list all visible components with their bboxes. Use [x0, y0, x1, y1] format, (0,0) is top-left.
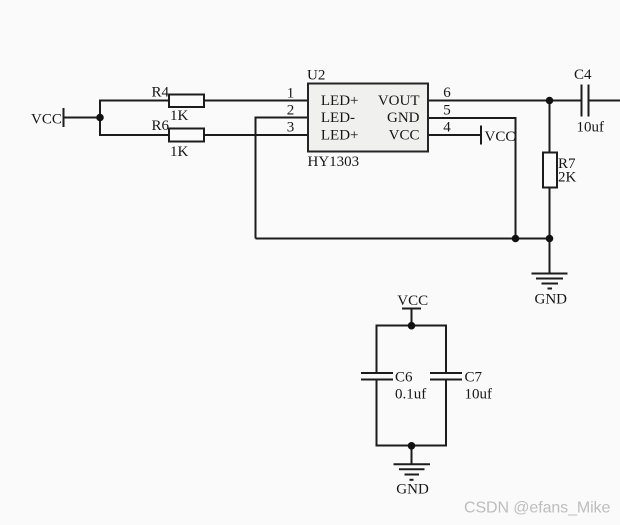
- svg-text:CSDN @efans_Mike: CSDN @efans_Mike: [464, 500, 610, 517]
- wire bottom rail C6 C7: [377, 445, 447, 447]
- svg-text:HY1303: HY1303: [308, 154, 360, 170]
- op-amp U2 body HY1303: [308, 84, 428, 152]
- wire VCC port to junction: [64, 117, 100, 119]
- svg-text:LED+: LED+: [321, 93, 359, 109]
- svg-text:R4: R4: [152, 84, 170, 100]
- wire GND1 stem: [549, 239, 551, 274]
- svg-text:VCC: VCC: [397, 293, 428, 309]
- node junction VCC2 top: [408, 322, 416, 330]
- svg-text:VCC: VCC: [485, 129, 516, 145]
- wire pin 5 vertical down: [515, 117, 517, 239]
- wire top rail C6 C7: [377, 325, 447, 327]
- node junction VOUT/C4/R7: [546, 97, 554, 105]
- port VCC pin4 bar: [480, 126, 482, 145]
- wire left branch lower: [376, 380, 378, 447]
- svg-text:5: 5: [443, 103, 451, 119]
- resistor R7 body: [543, 153, 557, 188]
- wire VCC2 stem: [411, 309, 413, 327]
- svg-text:2K: 2K: [558, 170, 577, 186]
- wire GND2 stem: [411, 446, 413, 465]
- wire junction down to R7 top: [549, 101, 551, 154]
- svg-text:C6: C6: [395, 370, 413, 386]
- svg-text:1K: 1K: [170, 144, 189, 160]
- svg-text:1: 1: [287, 86, 295, 102]
- power VCC2 bar: [402, 308, 421, 310]
- svg-text:0.1uf: 0.1uf: [395, 387, 426, 403]
- wire R4 to pin 1: [204, 100, 308, 102]
- svg-text:C4: C4: [574, 67, 592, 83]
- svg-text:GND: GND: [535, 292, 568, 308]
- capacitor C7 plates: [430, 373, 462, 380]
- svg-text:3: 3: [287, 120, 295, 136]
- wire junction to R4: [99, 100, 169, 102]
- port VCC left bar: [63, 108, 65, 127]
- ground GND2: [394, 464, 431, 480]
- svg-text:4: 4: [443, 120, 451, 136]
- node junction GND2 bottom: [408, 442, 416, 450]
- wire bottom horizontal net: [256, 238, 550, 240]
- svg-text:VCC: VCC: [389, 127, 420, 143]
- svg-text:LED+: LED+: [321, 127, 359, 143]
- resistor R6 body: [169, 129, 204, 142]
- svg-text:VCC: VCC: [31, 111, 62, 127]
- svg-text:2: 2: [287, 102, 295, 118]
- wire left branch upper: [376, 325, 378, 374]
- svg-text:U2: U2: [307, 68, 325, 84]
- svg-text:VOUT: VOUT: [378, 93, 420, 109]
- svg-text:1K: 1K: [170, 108, 189, 124]
- node junction GND net right: [546, 235, 554, 243]
- svg-text:6: 6: [443, 85, 451, 101]
- resistor R4 body: [169, 95, 204, 108]
- svg-text:C7: C7: [465, 370, 483, 386]
- wire right branch lower: [445, 380, 447, 447]
- svg-text:10uf: 10uf: [577, 119, 605, 135]
- svg-text:LED-: LED-: [321, 110, 355, 126]
- svg-text:10uf: 10uf: [465, 387, 493, 403]
- wire C4 right plate to edge: [590, 100, 620, 102]
- ground GND1: [532, 274, 568, 289]
- wire pin 4 to VCC port: [428, 134, 481, 136]
- node junction VCC split: [96, 114, 104, 122]
- wire pin 2 stub: [256, 117, 309, 119]
- wire pin 5 horizontal: [428, 117, 516, 119]
- wire R6 to pin 3: [204, 134, 308, 136]
- wire R7 bottom to bottom net: [549, 187, 551, 239]
- wire pin 2 vertical down: [255, 117, 257, 239]
- svg-text:GND: GND: [387, 110, 420, 126]
- wire pin 6 to C4: [428, 100, 581, 102]
- wire vertical split at junction: [99, 100, 101, 137]
- svg-text:GND: GND: [396, 481, 429, 497]
- wire right branch upper: [445, 325, 447, 374]
- capacitor C6 plates: [361, 373, 393, 380]
- wire junction to R6: [99, 134, 169, 136]
- svg-text:R6: R6: [152, 118, 170, 134]
- capacitor C4 plates: [582, 85, 589, 117]
- node junction GND net left: [512, 235, 520, 243]
